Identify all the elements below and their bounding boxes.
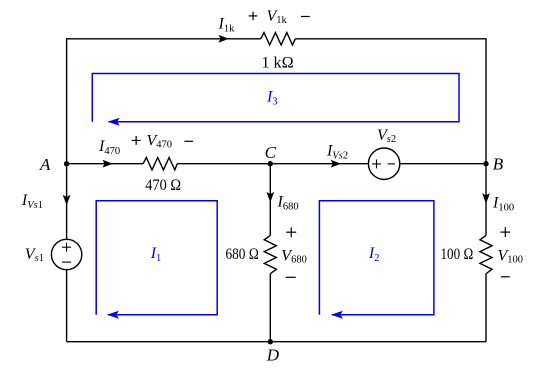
label plus V470: [132, 136, 141, 145]
wire C down to 680 resistor: [269, 164, 271, 236]
svg-text:D: D: [266, 346, 280, 365]
current arrow IVs2: [331, 160, 341, 168]
svg-text:1 kΩ: 1 kΩ: [262, 55, 294, 72]
node D junction dot: [268, 339, 273, 344]
mesh loop I2 blue: [319, 201, 434, 315]
resistor R 680 zigzag: [264, 235, 276, 273]
wire Vs1 to bottom: [66, 270, 68, 342]
current arrow I100 down: [482, 193, 490, 203]
label minus V100: [501, 276, 510, 278]
voltage source Vs1 circle: [51, 239, 81, 269]
label minus V1k: [301, 16, 310, 18]
wire top left segment: [67, 39, 261, 164]
node B junction dot: [483, 161, 488, 166]
Vs2 minus sign inside circle: [388, 163, 395, 165]
resistor R 100 zigzag: [480, 235, 492, 273]
Vs1 plus sign inside circle: [62, 243, 71, 252]
mesh loop I3 arrowhead: [108, 118, 120, 126]
resistor R 1k zigzag: [261, 33, 296, 45]
wire Vs2 to B: [400, 163, 486, 165]
wire C to Vs2: [270, 163, 368, 165]
wire 470 resistor to C: [177, 163, 270, 165]
wire bottom: [67, 341, 486, 343]
wire 680 resistor to D: [269, 274, 271, 342]
svg-text:470 Ω: 470 Ω: [145, 177, 181, 194]
current arrow I680 down: [266, 192, 274, 202]
wire top right segment: [295, 39, 486, 164]
current arrow IVs1 down left wire: [63, 195, 71, 205]
node A junction dot: [64, 161, 69, 166]
label plus V680: [286, 227, 296, 237]
current arrow I470: [103, 160, 113, 168]
wire B down to 100 resistor: [485, 164, 487, 236]
current arrow I1k on top wire: [219, 35, 229, 43]
wire middle A to 470 resistor: [67, 163, 144, 165]
svg-text:100 Ω: 100 Ω: [441, 246, 474, 263]
mesh loop I1 arrowhead: [107, 311, 119, 319]
node C junction dot: [268, 161, 273, 166]
Vs2 plus sign inside circle: [372, 160, 381, 169]
svg-text:C: C: [265, 143, 277, 162]
label plus V1k: [249, 12, 258, 20]
svg-text:A: A: [39, 155, 51, 174]
svg-text:680 Ω: 680 Ω: [226, 246, 260, 263]
wire 100 resistor to bottom: [485, 274, 487, 342]
svg-text:B: B: [493, 155, 504, 174]
Vs1 minus sign inside circle: [62, 261, 71, 263]
mesh loop I3 blue: [92, 74, 459, 122]
label minus V470: [184, 140, 193, 142]
wire A down to Vs1: [66, 164, 68, 240]
mesh loop I2 arrowhead: [331, 311, 343, 319]
voltage source Vs2 circle: [368, 148, 399, 179]
resistor R 470 zigzag: [143, 158, 177, 170]
label plus V100: [500, 227, 510, 237]
label minus V680: [286, 276, 296, 278]
mesh loop I1 blue: [96, 201, 217, 315]
